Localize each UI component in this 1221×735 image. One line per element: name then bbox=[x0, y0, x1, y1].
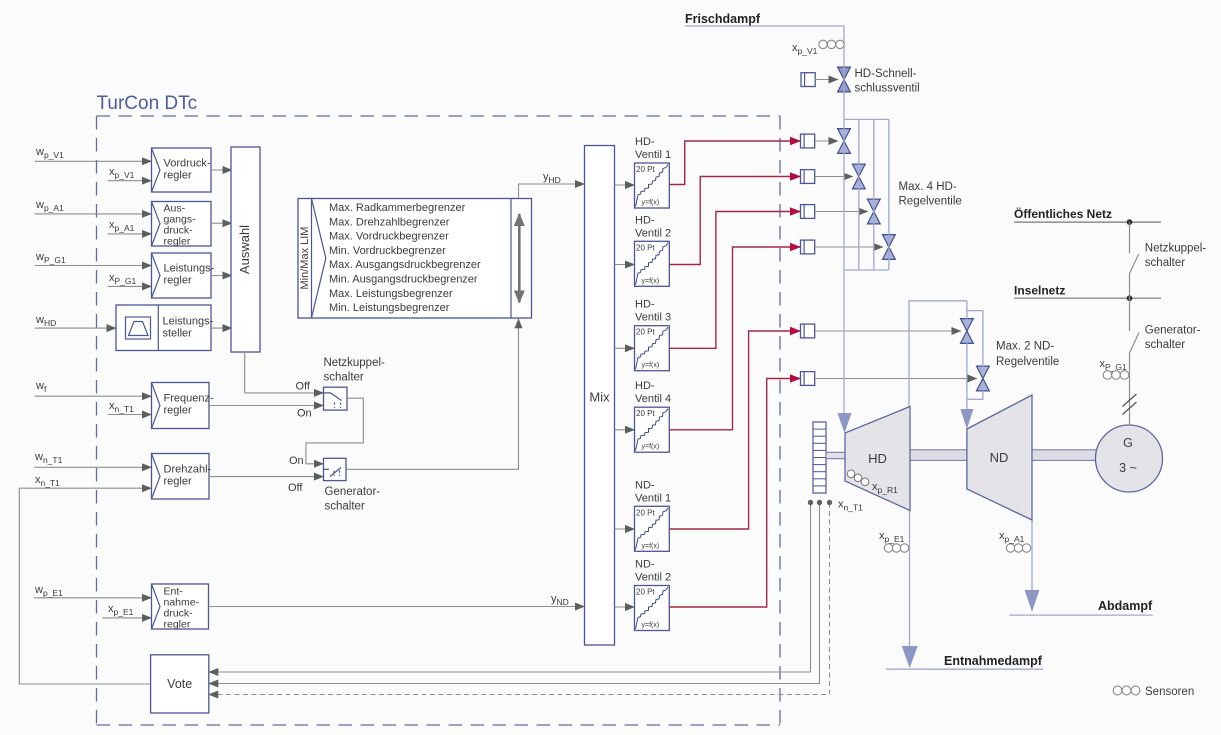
svg-text:TurCon DTc: TurCon DTc bbox=[97, 93, 198, 114]
svg-text:xp_V1: xp_V1 bbox=[792, 42, 818, 56]
svg-text:Leistungs-: Leistungs- bbox=[163, 316, 214, 328]
svg-text:Ventil 1: Ventil 1 bbox=[635, 149, 671, 161]
svg-text:y=f(x): y=f(x) bbox=[642, 444, 660, 451]
svg-text:wf: wf bbox=[35, 380, 47, 394]
svg-text:xp_V1: xp_V1 bbox=[109, 166, 135, 180]
svg-text:Max. 4 HD-: Max. 4 HD- bbox=[899, 181, 957, 193]
svg-text:wp_A1: wp_A1 bbox=[35, 199, 64, 213]
svg-text:Ventil 1: Ventil 1 bbox=[635, 492, 671, 504]
svg-text:schlussventil: schlussventil bbox=[855, 83, 920, 95]
svg-text:Ventil 2: Ventil 2 bbox=[635, 227, 671, 239]
svg-text:y=f(x): y=f(x) bbox=[642, 278, 660, 285]
svg-text:schalter: schalter bbox=[1145, 257, 1185, 269]
svg-text:xp_E1: xp_E1 bbox=[108, 603, 134, 617]
svg-text:xn_T1: xn_T1 bbox=[109, 400, 134, 414]
svg-text:20 Pt: 20 Pt bbox=[636, 165, 655, 174]
svg-text:Max. Ausgangsdruckbegrenzer: Max. Ausgangsdruckbegrenzer bbox=[329, 259, 481, 271]
svg-text:20 Pt: 20 Pt bbox=[636, 409, 655, 418]
svg-text:Sensoren: Sensoren bbox=[1145, 686, 1194, 698]
svg-text:xp_A1: xp_A1 bbox=[109, 219, 135, 233]
svg-text:y=f(x): y=f(x) bbox=[642, 200, 660, 207]
svg-text:Off: Off bbox=[288, 482, 303, 494]
svg-text:wHD: wHD bbox=[35, 314, 56, 328]
svg-text:Ventil 3: Ventil 3 bbox=[635, 312, 671, 324]
svg-text:schalter: schalter bbox=[324, 372, 364, 384]
svg-text:Inselnetz: Inselnetz bbox=[1014, 284, 1065, 298]
svg-text:yHD: yHD bbox=[543, 171, 561, 185]
svg-text:wp_E1: wp_E1 bbox=[34, 584, 63, 598]
svg-text:Regelventile: Regelventile bbox=[899, 196, 962, 208]
svg-text:y=f(x): y=f(x) bbox=[642, 362, 660, 369]
svg-text:Min. Vordruckbegrenzer: Min. Vordruckbegrenzer bbox=[329, 245, 446, 257]
svg-text:20 Pt: 20 Pt bbox=[636, 508, 655, 517]
svg-text:HD-: HD- bbox=[635, 214, 655, 226]
svg-text:20 Pt: 20 Pt bbox=[636, 243, 655, 252]
svg-text:regler: regler bbox=[164, 476, 192, 488]
svg-text:regler: regler bbox=[164, 619, 191, 631]
svg-text:yND: yND bbox=[551, 593, 569, 607]
svg-text:Auswahl: Auswahl bbox=[237, 225, 252, 274]
svg-text:HD: HD bbox=[868, 451, 887, 466]
svg-text:Netzkuppel-: Netzkuppel- bbox=[1145, 243, 1207, 255]
svg-text:Ventil 2: Ventil 2 bbox=[635, 572, 671, 584]
svg-text:HD-Schnell-: HD-Schnell- bbox=[855, 68, 917, 80]
svg-text:xn_T1: xn_T1 bbox=[838, 499, 863, 513]
svg-text:Öffentliches Netz: Öffentliches Netz bbox=[1014, 206, 1112, 221]
svg-text:Frischdampf: Frischdampf bbox=[685, 12, 761, 26]
svg-text:On: On bbox=[297, 408, 312, 420]
svg-text:HD-: HD- bbox=[635, 380, 655, 392]
svg-text:regler: regler bbox=[164, 236, 191, 248]
svg-text:Entnahmedampf: Entnahmedampf bbox=[944, 654, 1043, 668]
svg-text:Max. 2 ND-: Max. 2 ND- bbox=[996, 341, 1054, 353]
svg-text:Ventil 4: Ventil 4 bbox=[635, 393, 671, 405]
svg-text:Max. Vordruckbegrenzer: Max. Vordruckbegrenzer bbox=[329, 231, 449, 243]
svg-text:xp_E1: xp_E1 bbox=[879, 530, 905, 544]
svg-text:Min. Leistungsbegrenzer: Min. Leistungsbegrenzer bbox=[329, 302, 450, 314]
svg-text:Min. Ausgangsdruckbegrenzer: Min. Ausgangsdruckbegrenzer bbox=[329, 274, 478, 286]
svg-text:ND: ND bbox=[990, 450, 1009, 465]
svg-text:Leistungs-: Leistungs- bbox=[164, 263, 215, 275]
svg-text:Regelventile: Regelventile bbox=[996, 356, 1059, 368]
svg-text:Max. Drehzahlbegrenzer: Max. Drehzahlbegrenzer bbox=[329, 216, 450, 228]
svg-text:wn_T1: wn_T1 bbox=[34, 451, 63, 465]
svg-text:Min/Max LIM: Min/Max LIM bbox=[299, 227, 311, 290]
svg-text:3 ~: 3 ~ bbox=[1119, 461, 1137, 475]
svg-text:G: G bbox=[1123, 436, 1133, 450]
svg-text:On: On bbox=[289, 455, 304, 467]
svg-text:Generator-: Generator- bbox=[325, 486, 381, 498]
svg-text:regler: regler bbox=[164, 275, 192, 287]
svg-text:wp_V1: wp_V1 bbox=[35, 146, 64, 160]
svg-text:20 Pt: 20 Pt bbox=[636, 328, 655, 337]
svg-text:Off: Off bbox=[296, 381, 311, 393]
svg-text:schalter: schalter bbox=[325, 501, 365, 513]
svg-text:xp_A1: xp_A1 bbox=[999, 530, 1025, 544]
svg-text:Vordruck-: Vordruck- bbox=[164, 158, 211, 170]
svg-text:HD-: HD- bbox=[635, 136, 655, 148]
svg-text:Max. Leistungsbegrenzer: Max. Leistungsbegrenzer bbox=[329, 288, 453, 300]
svg-text:Drehzahl-: Drehzahl- bbox=[164, 464, 212, 476]
svg-text:ND-: ND- bbox=[635, 559, 655, 571]
svg-text:regler: regler bbox=[164, 170, 192, 182]
svg-text:ND-: ND- bbox=[635, 479, 655, 491]
svg-text:schalter: schalter bbox=[1145, 339, 1185, 351]
svg-text:Generator-: Generator- bbox=[1145, 325, 1201, 337]
svg-text:Mix: Mix bbox=[589, 390, 610, 405]
svg-text:y=f(x): y=f(x) bbox=[642, 543, 660, 550]
svg-text:Abdampf: Abdampf bbox=[1098, 599, 1153, 613]
svg-text:Vote: Vote bbox=[167, 677, 192, 691]
svg-text:Frequenz-: Frequenz- bbox=[164, 393, 214, 405]
svg-text:HD-: HD- bbox=[635, 299, 655, 311]
svg-text:Max. Radkammerbegrenzer: Max. Radkammerbegrenzer bbox=[329, 202, 466, 214]
svg-text:y=f(x): y=f(x) bbox=[642, 622, 660, 629]
svg-text:wP_G1: wP_G1 bbox=[35, 251, 66, 265]
svg-text:xn_T1: xn_T1 bbox=[35, 474, 60, 488]
svg-text:regler: regler bbox=[164, 405, 192, 417]
svg-text:20 Pt: 20 Pt bbox=[636, 588, 655, 597]
svg-text:steller: steller bbox=[163, 328, 193, 340]
svg-text:Netzkuppel-: Netzkuppel- bbox=[324, 357, 386, 369]
svg-text:xP_G1: xP_G1 bbox=[109, 272, 137, 286]
svg-text:xP_G1: xP_G1 bbox=[1100, 358, 1128, 372]
